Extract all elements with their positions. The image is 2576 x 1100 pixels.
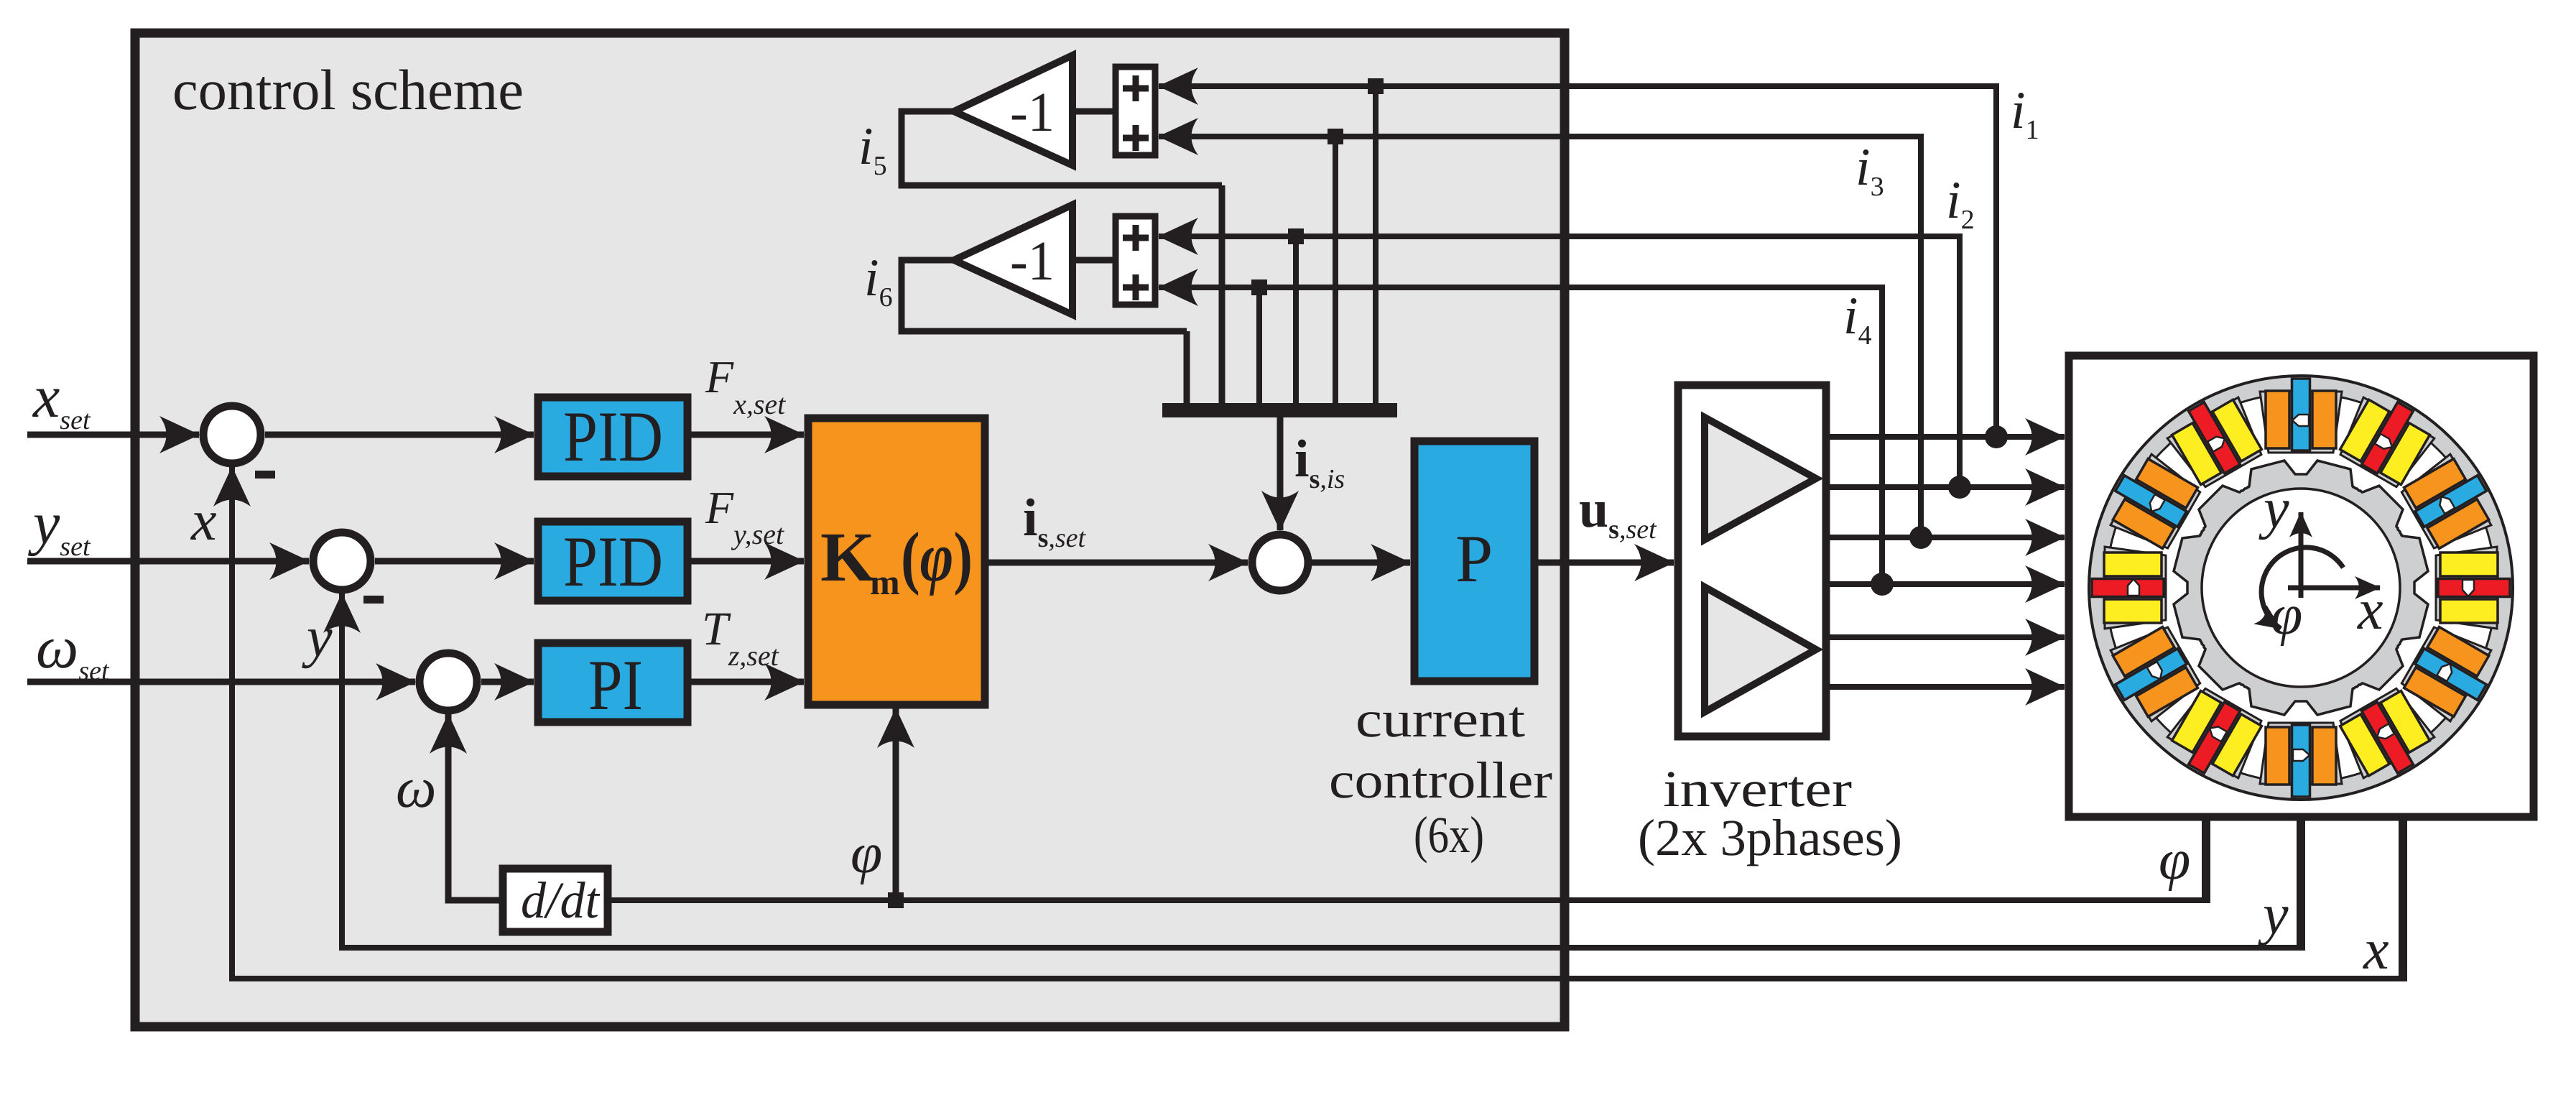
motor slot 7 [2161, 684, 2269, 789]
phi rotation arc [2261, 547, 2343, 629]
label i3 [1855, 138, 1884, 202]
motor stator outer [2089, 376, 2513, 800]
axis label y [2258, 477, 2289, 540]
label i1 [2011, 81, 2039, 145]
svg-text:-1: -1 [1010, 80, 1055, 143]
plus sign A2b [1123, 274, 1149, 300]
plus sign A1a [1123, 75, 1149, 101]
wire i6 loop [902, 260, 1187, 331]
wire inverter phase 2 to motor [1830, 484, 2065, 490]
junction dot i2 phase [1948, 476, 1971, 499]
wire y feedback stub [2297, 816, 2305, 948]
d/dt block [503, 869, 608, 932]
arrow x into S1 [229, 467, 235, 517]
svg-text:i2: i2 [1946, 171, 1975, 235]
wire i3 sense [1159, 137, 1921, 537]
junction dot i1 phase [1985, 425, 2008, 448]
summer box A2 (i2+i4) [1116, 216, 1155, 305]
motor slot 10 [2099, 448, 2204, 555]
svg-text:x: x [2357, 578, 2383, 642]
wire P to inverter u_s,set [1538, 560, 1674, 566]
svg-text:(φ): (φ) [901, 519, 973, 596]
node y_set label [27, 490, 91, 562]
arrow y into S2 [339, 593, 345, 647]
PI block [538, 643, 687, 722]
PID1 label [563, 397, 663, 476]
motor slot 3 [2436, 547, 2510, 629]
svg-text:controller: controller [1329, 752, 1552, 809]
wire PID2 to Km F_y,set [691, 558, 804, 565]
rotor bore [2202, 489, 2400, 687]
node x_set label [32, 364, 91, 435]
svg-text:x: x [190, 489, 217, 553]
motor box [2069, 356, 2534, 817]
junction dot i3 phase [1909, 526, 1932, 549]
junction square phi [888, 892, 904, 908]
wire inverter phase 5 to motor [1830, 634, 2065, 640]
junction square i3 [1328, 129, 1343, 144]
Km block [808, 418, 985, 705]
PID2 label [563, 522, 663, 601]
summing junction S2 [313, 532, 371, 590]
wire i4 branch to comb [1256, 287, 1262, 406]
label y left [302, 606, 333, 669]
wire Ssum to P [1312, 560, 1410, 566]
svg-text:-1: -1 [1010, 229, 1055, 292]
summing junction Ssum [1252, 535, 1308, 591]
P label [1455, 522, 1493, 596]
summer box A1 (i1+i3) [1116, 67, 1155, 155]
junction dot i4 phase [1871, 573, 1894, 596]
svg-text:PID: PID [563, 397, 663, 476]
axis label phi [2271, 583, 2302, 647]
label i6 [864, 249, 893, 313]
inverter gain -1 upper [954, 55, 1072, 165]
motor slot 8 [2099, 620, 2204, 728]
svg-text:(2x 3phases): (2x 3phases) [1638, 809, 1902, 866]
motor slot 4 [2397, 620, 2502, 728]
svg-text:i1: i1 [2011, 81, 2039, 145]
label i_s,is [1294, 430, 1345, 494]
plus sign A1b [1123, 125, 1149, 151]
wire x feedback [232, 471, 2407, 979]
svg-text:m: m [870, 562, 900, 602]
motor slot 2 [2397, 448, 2502, 555]
axis x arrow [2288, 586, 2380, 591]
PID block 2 [538, 522, 687, 601]
label -1 lower [1010, 229, 1055, 292]
wire i5 branch to comb [1219, 185, 1226, 406]
label u_s,set [1579, 480, 1657, 545]
plus sign A2a [1123, 225, 1149, 251]
arrow omega into S3 [445, 714, 452, 790]
label i_s,set [1023, 489, 1087, 553]
wire A2 to inv2 [1072, 257, 1116, 264]
label F_x,set [705, 351, 786, 420]
label y right [2258, 883, 2289, 946]
label F_y,set [705, 482, 784, 550]
motor slot 6 [2260, 723, 2342, 797]
current controller caption [1329, 690, 1552, 864]
wire y feedback [342, 596, 2305, 948]
svg-text:control scheme: control scheme [172, 59, 524, 122]
wire phi feedback stub [2202, 816, 2210, 900]
node omega_set label [36, 614, 110, 686]
wire d/dt to S3 omega [448, 718, 503, 900]
control scheme box [135, 33, 1565, 1027]
svg-text:xset: xset [32, 364, 91, 435]
svg-text:(6x): (6x) [1414, 806, 1484, 864]
svg-text:ω: ω [396, 757, 436, 820]
minus sign S2 [363, 596, 384, 604]
junction square i1 [1368, 78, 1384, 94]
wire y_set input [27, 558, 309, 565]
wire omega_set input [27, 679, 415, 685]
P block current controller [1414, 441, 1534, 681]
wire inverter phase 6 to motor [1830, 684, 2065, 690]
svg-text:φ: φ [2159, 828, 2190, 892]
svg-text:φ: φ [2271, 583, 2302, 647]
wire i3 branch to comb [1333, 137, 1338, 406]
label T_z,set [702, 603, 779, 672]
wire inverter phase 1 to motor [1830, 434, 2065, 440]
wire i1 branch to comb [1373, 86, 1379, 406]
wire comb to Ssum i_s,is [1277, 417, 1284, 530]
summing junction S1 [203, 406, 261, 463]
motor slot 9 [2092, 547, 2166, 629]
motor slot 0 [2260, 379, 2342, 453]
wire x feedback stub [2399, 816, 2407, 979]
wire inverter phase 4 to motor [1830, 581, 2065, 587]
axis label x [2357, 578, 2383, 642]
inverter box [1678, 385, 1826, 736]
label -1 upper [1010, 80, 1055, 143]
label phi right [2159, 828, 2190, 892]
wire phi feedback [611, 897, 2210, 903]
wire Km to Ssum i_s,set [988, 560, 1248, 566]
svg-text:us,set: us,set [1579, 480, 1657, 545]
wire S1 to PID1 [265, 432, 534, 438]
wire A1 to inv1 [1072, 108, 1116, 115]
summing junction S3 [420, 653, 477, 711]
wire inverter phase 3 to motor [1830, 535, 2065, 540]
svg-text:ωset: ωset [36, 614, 110, 686]
motor stator inner rim [2106, 393, 2496, 782]
label i5 [858, 117, 887, 181]
svg-text:i4: i4 [1843, 287, 1872, 351]
wire PID1 to Km F_x,set [691, 432, 804, 438]
label x right [2363, 918, 2389, 981]
svg-text:P: P [1455, 522, 1493, 596]
wire i5 loop [902, 111, 1222, 185]
inverter caption [1638, 760, 1902, 866]
inverter gain -1 lower [954, 205, 1072, 315]
junction square i2 [1288, 228, 1304, 244]
wire PI to Km T_z,set [691, 679, 804, 685]
wire i1 sense [1159, 86, 1996, 437]
wire i2 sense [1159, 236, 1960, 487]
svg-text:PID: PID [563, 522, 663, 601]
svg-text:x: x [2363, 918, 2389, 981]
wire x_set input [27, 432, 199, 438]
PI label [588, 645, 643, 725]
junction square i4 [1251, 279, 1267, 295]
motor slot 1 [2333, 386, 2441, 491]
svg-text:y: y [302, 606, 333, 669]
Km label [820, 519, 973, 602]
wire i6 branch to comb [1184, 331, 1190, 406]
svg-text:y: y [2258, 477, 2289, 540]
wire i4 sense [1159, 287, 1882, 584]
svg-text:K: K [820, 519, 875, 596]
svg-text:φ: φ [851, 822, 882, 885]
inverter triangle 1 [1705, 417, 1816, 540]
wire i2 branch to comb [1293, 236, 1299, 406]
comb bus bar [1162, 403, 1397, 417]
label i4 [1843, 287, 1872, 351]
wire S2 to PID2 [375, 558, 534, 565]
svg-text:yset: yset [27, 490, 91, 562]
motor slot 11 [2161, 386, 2269, 491]
rotor gear ring [2174, 461, 2428, 715]
wire phi to Km [893, 708, 899, 900]
control scheme label [172, 59, 524, 122]
motor slot 5 [2333, 684, 2441, 789]
PID block 1 [538, 397, 687, 476]
d/dt label [521, 872, 601, 929]
label omega [396, 757, 436, 820]
label x left [190, 489, 217, 553]
axis y arrow [2299, 512, 2304, 598]
svg-text:y: y [2258, 883, 2289, 946]
label i2 [1946, 171, 1975, 235]
svg-text:PI: PI [588, 645, 643, 725]
inverter triangle 2 [1705, 587, 1816, 712]
svg-text:d/dt: d/dt [521, 872, 601, 929]
wire S3 to PI [481, 679, 534, 685]
minus sign S1 [255, 471, 275, 479]
svg-text:i3: i3 [1855, 138, 1884, 202]
svg-text:current: current [1356, 690, 1525, 748]
label phi inner [851, 822, 882, 885]
